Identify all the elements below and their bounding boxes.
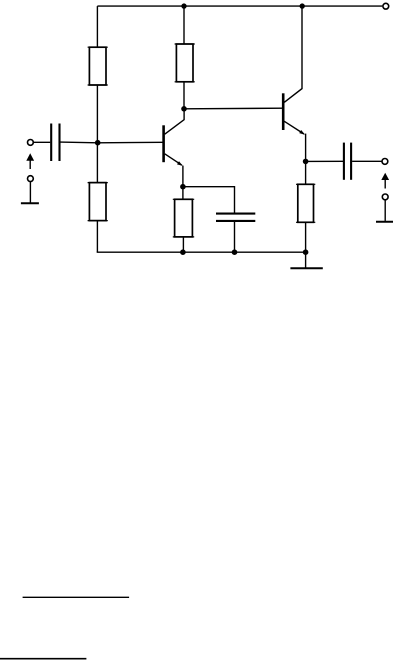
wire input source to ground xyxy=(29,182,31,203)
wire C2 to bottom rail xyxy=(234,222,236,252)
ground input bar xyxy=(21,202,39,204)
wire output node to C3 xyxy=(306,160,343,162)
wire col1 from top rail to R1 xyxy=(96,6,98,47)
footnote rule lower xyxy=(0,658,86,660)
resistor R2 (lower left bias) xyxy=(89,183,106,221)
transistor Q2 base bar xyxy=(282,93,285,130)
capacitor C2 (emitter bypass) top plate xyxy=(216,213,255,215)
ground output bar xyxy=(376,221,393,223)
capacitor C2 bottom plate xyxy=(216,220,255,222)
terminal input (open circle) xyxy=(28,140,34,146)
node junction dot Q2 emitter / output xyxy=(303,159,309,165)
capacitor C1 (input coupling) left plate xyxy=(50,124,52,162)
wire input terminal to C1 xyxy=(33,141,50,143)
node junction dot bottom rail / C2 xyxy=(232,249,238,255)
wire C3 to output terminal xyxy=(352,160,382,162)
node junction dot base divider xyxy=(95,140,101,146)
wire collector node to Q2 base xyxy=(184,107,283,110)
node junction dot top rail / col2 xyxy=(181,3,186,8)
terminal output load (open circle) xyxy=(382,194,388,200)
wire emitter node to C2 xyxy=(183,187,235,213)
ground main bar xyxy=(290,267,322,269)
transistor Q1 collector lead xyxy=(165,109,184,134)
resistor R3 (collector load Q1) xyxy=(176,44,193,82)
node junction dot bottom rail / R5 xyxy=(303,249,309,255)
terminal input source (open circle) xyxy=(28,176,34,182)
transistor Q1 base bar xyxy=(162,125,165,162)
arrow input signal xyxy=(29,160,31,169)
capacitor C3 (output coupling) left plate xyxy=(343,143,345,180)
resistor R1 (upper left bias) xyxy=(89,47,106,85)
footnote rule upper xyxy=(23,596,130,598)
wire Q1 emitter to emitter node xyxy=(182,166,184,200)
transistor Q2 collector lead xyxy=(284,6,302,102)
node junction dot bottom rail / R4 xyxy=(180,249,186,255)
arrow output signal xyxy=(384,179,386,189)
wire Q1 base from C1 through divider node xyxy=(60,141,163,144)
transistor Q2 emitter lead with arrow xyxy=(284,121,304,134)
terminal VCC (open circle, top right) xyxy=(383,3,389,9)
ground main stem xyxy=(305,252,307,268)
capacitor C3 right plate xyxy=(350,143,352,180)
wire VCC top rail xyxy=(97,5,382,7)
capacitor C1 right plate xyxy=(58,124,60,162)
wire bottom rail xyxy=(97,251,306,253)
transistor Q1 emitter lead with arrow xyxy=(165,154,182,165)
node junction dot Q1 collector xyxy=(181,106,187,112)
wire Q2 emitter to output node xyxy=(305,134,307,185)
wire output load to ground xyxy=(384,200,386,221)
terminal output (open circle) xyxy=(382,159,388,165)
wire col2 top rail to R3 xyxy=(183,6,185,44)
wire col1 R2 to bottom rail xyxy=(96,221,98,253)
node junction dot top rail / col3 xyxy=(300,3,305,8)
wire R5 to bottom rail xyxy=(305,222,307,252)
resistor R5 (emitter Q2) xyxy=(298,184,314,222)
wire col1 R1 to R2 through base node xyxy=(96,85,98,183)
wire R3 to collector node xyxy=(183,82,185,109)
node junction dot Q1 emitter xyxy=(180,184,186,190)
wire R4 to bottom rail xyxy=(182,237,184,252)
resistor R4 (emitter Q1) xyxy=(175,199,193,237)
